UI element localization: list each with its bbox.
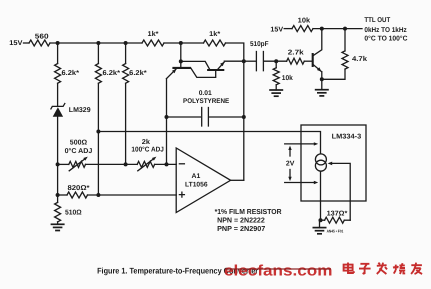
svg-text:510Ω: 510Ω [65, 210, 82, 217]
resistor 137 ohm* [325, 217, 345, 223]
wire 6.2k no3 down to pot line [125, 83, 127, 164]
svg-text:137Ω*: 137Ω* [327, 211, 348, 218]
svg-text:560: 560 [35, 34, 49, 41]
transistor Q3 NPN 2N2222 base bar [312, 53, 314, 67]
svg-text:6.2k*: 6.2k* [62, 69, 80, 77]
resistor 6.2k* no3 [123, 64, 129, 84]
wire Q3 emitter to ground node [321, 72, 323, 80]
svg-text:820Ω*: 820Ω* [68, 185, 90, 192]
svg-text:10k: 10k [282, 74, 293, 82]
wire Q2 emitter to node X [224, 60, 244, 62]
svg-text:0.01: 0.01 [199, 90, 212, 97]
svg-text:2k: 2k [142, 138, 150, 146]
resistor 6.2k* no1 [55, 64, 61, 84]
potentiometer 2k 100C ADJ [137, 161, 154, 167]
wire 510pF to 2.7k [264, 60, 287, 62]
wire pot line left [58, 163, 69, 165]
wire rail to R 6.2k no3 [125, 43, 127, 64]
wire pot line middle [86, 163, 138, 165]
svg-text:2V: 2V [286, 161, 295, 168]
svg-text:A1: A1 [192, 173, 201, 180]
wire node X vertical (output net) [243, 61, 245, 180]
wire bias line to LM334 [98, 132, 320, 154]
transistor Q2 emitter with arrow [217, 62, 224, 69]
wire rail end turning down to node X [226, 43, 244, 61]
wire Q1 emitter down to integrator cap [166, 79, 168, 117]
svg-text:6.2k*: 6.2k* [129, 69, 147, 77]
svg-text:PNP = 2N2907: PNP = 2N2907 [217, 224, 265, 233]
resistor 4.7k [344, 29, 346, 51]
svg-text:510pF: 510pF [250, 41, 269, 48]
ground (below 510 ohm) [57, 222, 59, 224]
transistor Q1 emitter with arrow [167, 69, 177, 79]
wire 6.2k no1 to zener [57, 83, 59, 106]
svg-text:TTL OUT: TTL OUT [364, 17, 390, 24]
svg-text:AN45 • F01: AN45 • F01 [327, 229, 344, 234]
svg-text:100°C ADJ: 100°C ADJ [131, 147, 164, 154]
ground (below 10k) [275, 85, 277, 90]
wire 6.2k no2 down to plus-input node [97, 83, 99, 195]
resistor 10k (to ground) [275, 61, 277, 68]
wire current source down to 137 ohm [320, 171, 322, 220]
svg-text:LM334-3: LM334-3 [332, 133, 362, 140]
resistor 6.2k* no2 [95, 64, 101, 84]
wire rail between 1k resistors [164, 42, 204, 44]
wire 2.7k to Q3 base [304, 60, 312, 62]
wire minus-input vertical [166, 117, 168, 164]
current source LM334 circles [315, 154, 326, 165]
wire collector rail to TTL OUT [313, 28, 362, 30]
op-amp A1 LT1056 [176, 148, 230, 213]
wire current source set-pin arrow [330, 163, 350, 220]
resistor 820 ohm* [58, 194, 67, 196]
watermark chinese characters [344, 263, 423, 275]
zener diode LM329 [51, 104, 65, 109]
wire zener to pot line [57, 117, 59, 195]
wire rail down to Q3 collector [313, 29, 322, 56]
svg-text:0°C TO 100°C: 0°C TO 100°C [364, 36, 407, 43]
svg-text:15V: 15V [9, 40, 23, 47]
svg-text:15V: 15V [270, 26, 283, 33]
resistor 1k* (first) [142, 40, 164, 46]
junction dots [56, 41, 60, 45]
svg-text:4.7k: 4.7k [352, 55, 367, 63]
svg-text:1k*: 1k* [209, 30, 220, 38]
transistor Q2 PNP 2N2907 base bar [207, 69, 224, 71]
wire 15V to R 560 [24, 42, 30, 44]
transistor Q1 PNP 2N2907 base bar [172, 67, 191, 69]
ground (LM334 / 137 ohm) [319, 220, 321, 227]
resistor 560 [29, 40, 50, 46]
svg-text:0kHz TO 1kHz: 0kHz TO 1kHz [364, 26, 407, 34]
resistor 1k* (second) [204, 40, 226, 46]
LM334-3 box [301, 125, 366, 201]
svg-text:6.2k*: 6.2k* [103, 69, 121, 77]
wire 4.7k bottom to emitter node [322, 69, 345, 79]
svg-text:1k*: 1k* [148, 30, 159, 38]
resistor 10k (pull-up) [292, 26, 313, 32]
wire cap line left [167, 116, 201, 118]
transistor Q3 emitter with arrow [313, 65, 321, 72]
wire cap line right [209, 116, 244, 118]
capacitor 510pF [244, 60, 256, 62]
wire rail dot down to Q1 [180, 43, 182, 67]
wire 15V to 10k [284, 28, 292, 30]
wire rail to R 6.2k no2 [97, 43, 99, 64]
capacitor 0.01 polystyrene [201, 108, 203, 127]
wire op-amp output [231, 179, 244, 181]
wire top rail left [50, 42, 142, 44]
resistor 510 ohm [57, 195, 59, 202]
svg-text:2.7k: 2.7k [288, 49, 304, 57]
svg-text:LM329: LM329 [69, 107, 91, 114]
wire pot line to op-amp minus input [155, 163, 177, 165]
svg-text:*1% FILM RESISTOR: *1% FILM RESISTOR [215, 207, 283, 216]
svg-text:elecfans.com: elecfans.com [224, 263, 333, 280]
wire Q1 base to Q2 (lower Z path) [191, 68, 216, 77]
ground (Q3 emitter) [321, 79, 323, 89]
svg-text:LT1056: LT1056 [185, 182, 208, 189]
svg-text:POLYSTYRENE: POLYSTYRENE [183, 98, 230, 105]
wire Q1 collector node to Q2 collector (top path) [181, 61, 210, 69]
svg-text:500Ω: 500Ω [70, 140, 88, 147]
wire 820 to op-amp plus input [88, 194, 177, 196]
resistor 2.7k [287, 58, 305, 64]
wire rail to R 6.2k no1 [57, 43, 59, 64]
annotation 2V measurement arrows [285, 143, 316, 145]
svg-text:0°C ADJ: 0°C ADJ [65, 148, 93, 155]
svg-text:10k: 10k [298, 16, 311, 24]
potentiometer 500 ohm 0C ADJ [69, 161, 86, 167]
